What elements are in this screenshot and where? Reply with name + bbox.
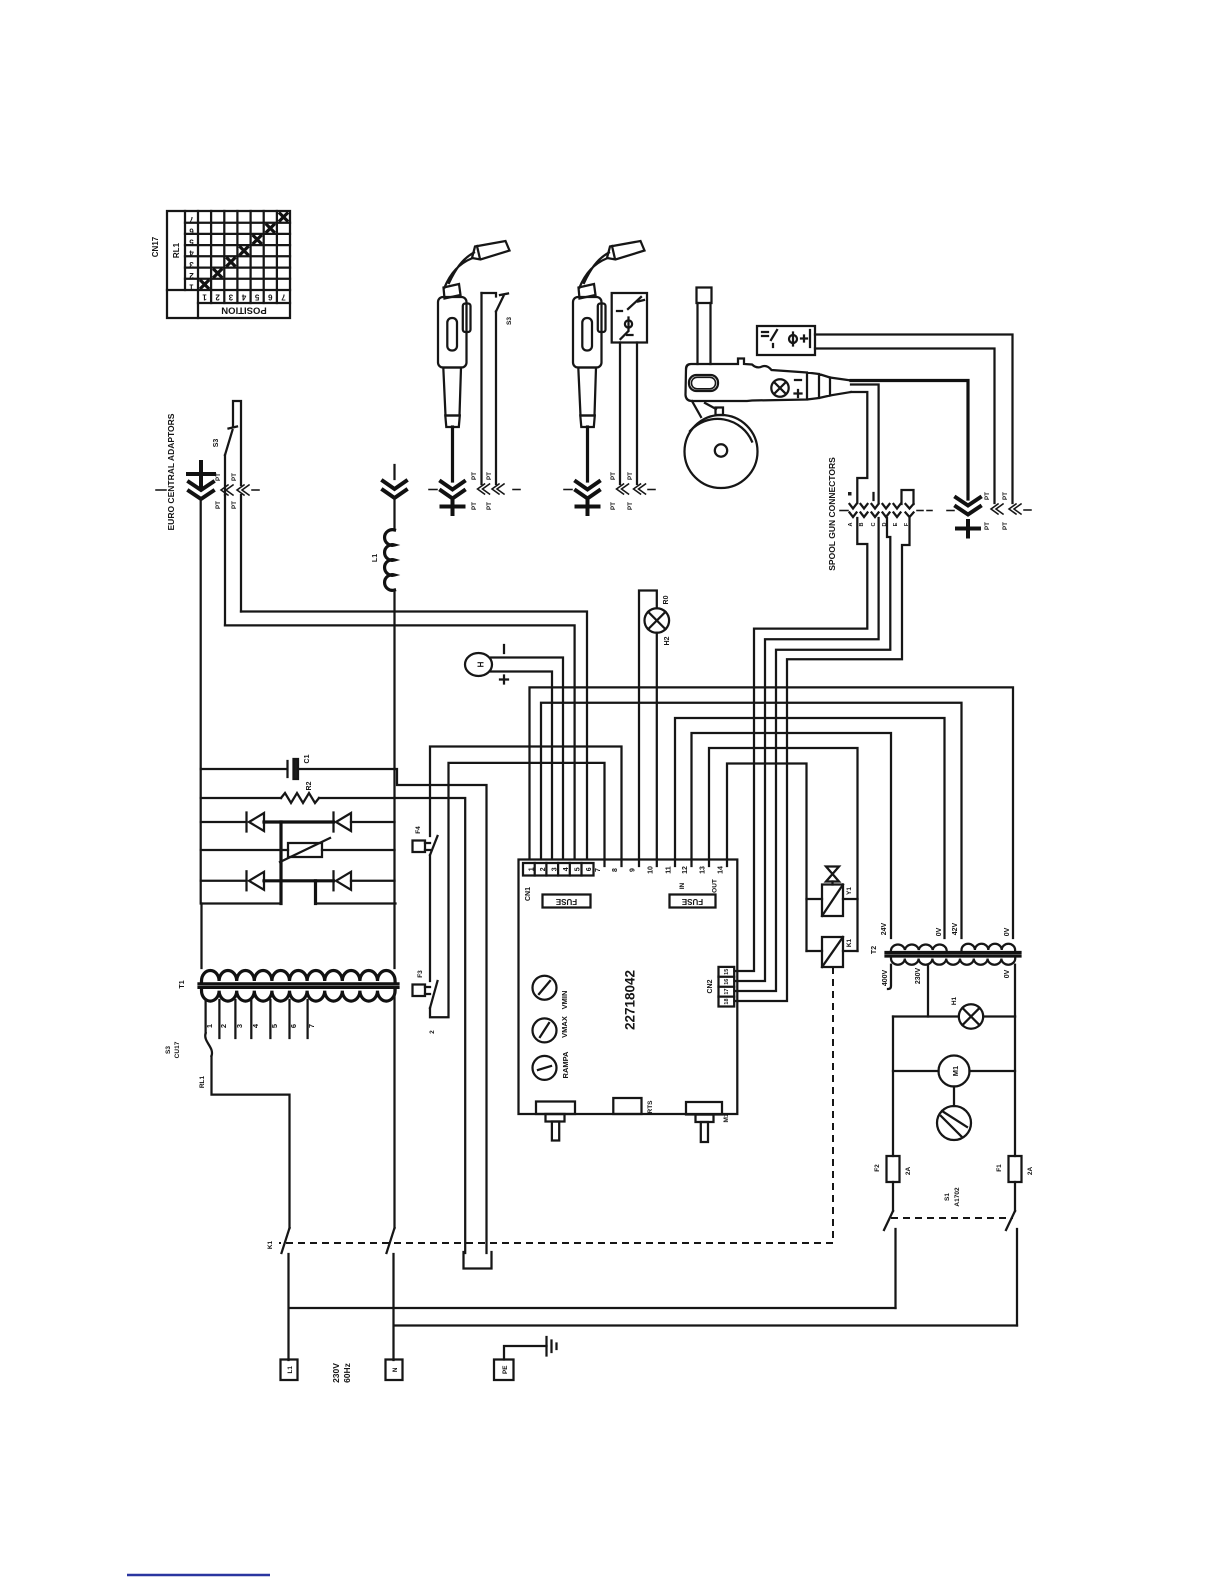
torch1 lower cone	[443, 368, 461, 416]
switch S3 on adaptor loop	[225, 427, 237, 496]
T1 primary winding	[202, 991, 396, 1002]
torch1 switch S3	[496, 296, 504, 312]
terminal N	[386, 1360, 403, 1381]
torch2 trigger window	[582, 318, 592, 351]
torch1 side latch	[463, 304, 471, 333]
T2 secondary 42V winding	[962, 944, 1016, 950]
torch1 neck collar	[444, 284, 461, 299]
svg-text:1: 1	[528, 867, 535, 871]
torch1 handle	[438, 297, 467, 368]
svg-text:0V: 0V	[1004, 927, 1011, 936]
wire spool box to PT b	[815, 349, 995, 504]
svg-text:18: 18	[724, 998, 730, 1004]
svg-text:10: 10	[647, 866, 654, 874]
spool gun slot	[689, 375, 718, 391]
euro adaptor gas cross	[188, 462, 214, 486]
wire T2 primary 0V to right rail	[1014, 965, 1016, 1017]
svg-text:8: 8	[612, 868, 619, 872]
wire bus2 to CN1 pin5	[225, 625, 575, 859]
svg-text:RAMPA: RAMPA	[561, 1051, 570, 1079]
torch2 gas cross	[577, 500, 599, 515]
earth ground symbol	[547, 1337, 557, 1356]
RTS component	[613, 1098, 641, 1114]
wire CN1 pin11 to T2 24V-winding 0V	[675, 718, 945, 938]
svg-text:PT: PT	[627, 472, 634, 480]
spool gun spindle	[697, 288, 712, 365]
spool gun wheel arm	[692, 401, 716, 417]
svg-text:230V: 230V	[331, 1363, 341, 1383]
svg-text:2: 2	[219, 1024, 228, 1028]
torch1 tip ferrule	[445, 416, 460, 428]
wire CN1 pin2 to T2 42V	[541, 703, 962, 938]
svg-text:R2: R2	[306, 781, 313, 790]
plus mark	[500, 676, 508, 684]
torch2 neck	[580, 253, 610, 288]
T1 core	[199, 982, 398, 985]
svg-text:7: 7	[307, 1024, 316, 1028]
wire spool gun trigger 1	[851, 385, 879, 504]
svg-text:400V: 400V	[882, 970, 889, 987]
spool connector pin letters	[848, 522, 910, 526]
svg-text:T1: T1	[179, 980, 186, 988]
svg-text:PT: PT	[215, 473, 222, 481]
wire T2 230V tap to H1 row	[927, 965, 929, 1017]
svg-text:S3: S3	[213, 439, 220, 448]
capacitor C1 row	[201, 759, 395, 779]
svg-text:2: 2	[540, 867, 547, 871]
svg-text:POSITION: POSITION	[221, 305, 267, 316]
svg-text:F2: F2	[874, 1164, 881, 1172]
svg-text:4: 4	[241, 293, 246, 302]
svg-text:PE: PE	[502, 1366, 509, 1374]
PCB board outline	[519, 860, 738, 1115]
wire PT2 down to bus1	[240, 495, 242, 612]
dashed mating line left of euro adaptor	[156, 489, 166, 491]
torch2 handle	[573, 297, 602, 368]
gas valve Y1	[807, 867, 858, 917]
svg-text:7: 7	[189, 215, 194, 224]
svg-text:L1: L1	[372, 554, 379, 562]
svg-text:1: 1	[202, 293, 207, 302]
svg-text:C: C	[871, 522, 877, 526]
svg-text:7: 7	[281, 293, 286, 302]
svg-text:4: 4	[189, 249, 194, 258]
torch1 neck	[445, 253, 475, 288]
T2 core	[886, 951, 1020, 954]
svg-text:2: 2	[215, 293, 220, 302]
torch1 nozzle	[472, 241, 510, 260]
switch S1 A1702 right pole	[1006, 1182, 1017, 1326]
svg-text:17: 17	[724, 989, 730, 995]
svg-text:2: 2	[189, 271, 194, 280]
lamp H2	[645, 608, 670, 633]
L1 top stub	[393, 465, 395, 479]
trimmer VMIN	[533, 976, 557, 1000]
svg-text:CU17: CU17	[174, 1041, 181, 1058]
L1 chevron connector	[383, 481, 406, 498]
svg-text:PT: PT	[231, 473, 238, 481]
svg-text:OUT: OUT	[712, 879, 719, 893]
svg-text:FUSE: FUSE	[555, 897, 577, 906]
svg-text:9: 9	[630, 868, 637, 872]
wire spool box to PT a	[815, 335, 1013, 504]
torch2 trigger box	[612, 293, 647, 343]
wire T1 primary 0V down to K1 contact	[393, 990, 395, 1228]
svg-text:PT: PT	[627, 502, 634, 510]
connector CN2 pins 15-18	[719, 967, 735, 1007]
svg-text:PT: PT	[1002, 492, 1009, 500]
svg-text:6: 6	[268, 293, 273, 302]
selector S3 CU17 wiper	[205, 1033, 212, 1056]
T1 primary taps 1-7	[206, 1000, 308, 1038]
svg-text:H2: H2	[664, 636, 671, 645]
PT connector pair on torch control loop	[221, 485, 249, 495]
wire spool gun motor feed (bold)	[851, 381, 968, 500]
wire rectifier bold bus row2	[264, 879, 334, 882]
wire H1 row	[893, 1015, 959, 1017]
wire CN1 pin9 up and over to H2	[639, 591, 657, 860]
svg-text:FUSE: FUSE	[681, 897, 703, 906]
svg-text:S3: S3	[165, 1046, 172, 1054]
torch2 PT connectors	[617, 484, 646, 494]
svg-text:EURO CENTRAL ADAPTORS: EURO CENTRAL ADAPTORS	[166, 413, 176, 530]
wire left box edge	[200, 769, 202, 904]
connection table CN17/RL1 POSITION	[167, 211, 290, 318]
svg-text:42V: 42V	[952, 922, 959, 935]
terminal PE	[494, 1360, 514, 1381]
svg-text:22718042: 22718042	[623, 970, 638, 1030]
svg-text:CN1: CN1	[525, 887, 532, 901]
svg-text:2: 2	[429, 1030, 436, 1034]
svg-text:0V: 0V	[1004, 969, 1011, 978]
spool gun body	[686, 359, 831, 402]
svg-text:16: 16	[724, 979, 730, 985]
varistor row	[201, 838, 395, 862]
contactor K1 pole 2	[387, 1228, 395, 1360]
svg-text:PT: PT	[471, 472, 478, 480]
wire bus1 to CN1 pin6	[241, 612, 587, 860]
svg-text:3: 3	[189, 260, 194, 269]
svg-text:VMIN: VMIN	[560, 991, 569, 1010]
svg-text:14: 14	[718, 866, 725, 874]
torch2 cable	[586, 427, 589, 481]
shunt H	[465, 653, 492, 676]
svg-text:1: 1	[205, 1024, 214, 1028]
spool gun nozzle taper lines	[830, 378, 851, 381]
inductor L1	[385, 530, 395, 591]
svg-text:PT: PT	[1002, 522, 1009, 530]
torch1 gas cross	[442, 500, 464, 515]
wire RL1 selector to K1 contact	[212, 1056, 290, 1228]
torch1 central adaptor chevron	[441, 482, 464, 499]
svg-text:Y1: Y1	[846, 887, 853, 895]
torch1 trigger window	[447, 318, 457, 351]
torch2 side latch	[598, 304, 606, 333]
svg-text:N: N	[392, 1367, 399, 1372]
svg-text:3: 3	[235, 1024, 244, 1028]
svg-text:4: 4	[563, 867, 570, 871]
svg-text:5: 5	[574, 867, 581, 871]
T1 secondary enclosure	[202, 904, 396, 969]
svg-text:SPOOL GUN CONNECTORS: SPOOL GUN CONNECTORS	[827, 457, 837, 571]
svg-text:6: 6	[586, 867, 593, 871]
spool gun wire wheel	[685, 415, 758, 488]
terminal L1	[281, 1360, 298, 1381]
wire spool conn A to CN2 pin15	[735, 518, 868, 971]
contactor K1 pole 1	[282, 1228, 290, 1360]
svg-text:H1: H1	[951, 996, 958, 1005]
wire R2 row to K1 output contact	[395, 798, 466, 1253]
wire PE to earth	[504, 1346, 547, 1360]
mains bus line 1	[290, 1307, 896, 1309]
svg-text:3: 3	[551, 867, 558, 871]
svg-text:6: 6	[289, 1024, 298, 1028]
wire F3 back up to CN1 pin7	[430, 763, 605, 1017]
svg-text:230V: 230V	[915, 968, 922, 985]
torch2 lower cone	[578, 368, 596, 416]
svg-text:T2: T2	[871, 946, 878, 954]
spool gun switch box	[757, 326, 815, 355]
svg-text:K1: K1	[846, 938, 853, 947]
spool gun motor circle	[771, 379, 788, 396]
T2 secondary 24V winding	[891, 945, 947, 950]
wire spool conn B to CN2 pin16	[735, 518, 879, 981]
wire M1 row	[893, 1070, 939, 1072]
minus mark	[503, 645, 505, 653]
right chevron connector (bold)	[956, 498, 980, 515]
fan	[953, 1087, 955, 1107]
torch1 PT connectors	[478, 484, 505, 494]
table column digits	[202, 293, 286, 302]
svg-text:PT: PT	[984, 492, 991, 500]
svg-text:PT: PT	[486, 502, 493, 510]
T1 secondary winding	[202, 971, 396, 982]
svg-text:PT: PT	[486, 472, 493, 480]
svg-text:L1: L1	[287, 1366, 294, 1374]
svg-text:7: 7	[595, 868, 602, 872]
motor M1	[939, 1056, 970, 1087]
trimmer RAMPA	[533, 1056, 557, 1080]
wire H plus to CN1 pin3	[490, 672, 552, 860]
wire CN1 pin14 to Y1/K1 left side	[727, 764, 807, 952]
wire C1 row jog to K1 output contact	[395, 769, 487, 1253]
svg-text:24V: 24V	[881, 922, 888, 935]
svg-text:IN: IN	[679, 882, 686, 889]
svg-text:E: E	[893, 522, 899, 526]
contactor K1 output pole bracket	[464, 1252, 492, 1269]
svg-text:5: 5	[254, 293, 259, 302]
svg-text:2A: 2A	[905, 1167, 912, 1176]
lamp H1	[959, 1004, 983, 1028]
svg-text:H: H	[477, 661, 486, 667]
wire spool conn F to CN2 pin18	[735, 518, 910, 1001]
svg-text:PT: PT	[984, 522, 991, 530]
svg-text:5: 5	[189, 238, 194, 247]
svg-text:PT: PT	[471, 502, 478, 510]
svg-text:F4: F4	[415, 826, 422, 834]
fuse F1 2A	[1014, 1017, 1016, 1157]
wire CN1 pin12 to T2 24V	[692, 733, 892, 938]
svg-text:F1: F1	[996, 1164, 1003, 1172]
torch1 switch wires	[482, 293, 497, 297]
thermostat F4	[413, 836, 438, 855]
switch S1 A1702 left pole	[884, 1182, 896, 1308]
svg-text:F3: F3	[417, 970, 424, 978]
wire CN1 pin8 to F4	[430, 747, 622, 860]
torch2 tip ferrule	[580, 416, 595, 428]
wire rectifier bold bus row1	[264, 820, 334, 823]
svg-text:0V: 0V	[936, 927, 943, 936]
relay coil K1	[807, 937, 858, 967]
torch2 wires from box to PT	[619, 343, 621, 485]
svg-text:1: 1	[189, 282, 194, 291]
wire F4 to F3	[429, 855, 431, 981]
torch2 nozzle	[607, 241, 645, 260]
svg-text:M1: M1	[723, 1113, 730, 1122]
svg-text:RL1: RL1	[172, 242, 181, 258]
PCB stub connector left	[536, 1102, 575, 1141]
svg-text:CN2: CN2	[707, 979, 714, 993]
blue pen mark	[127, 1574, 270, 1577]
trimmer VMAX	[533, 1018, 557, 1042]
wire PT1 down to bus2	[224, 495, 226, 625]
spool connector chevrons A-F	[850, 504, 914, 517]
svg-text:S1: S1	[944, 1193, 951, 1201]
spool connector line	[840, 510, 932, 512]
svg-text:R0: R0	[663, 595, 670, 604]
PCB stub connector M1	[686, 1102, 722, 1142]
svg-text:PT: PT	[215, 501, 222, 509]
T2 400V stub	[888, 965, 891, 989]
svg-text:12: 12	[682, 866, 689, 874]
CN1 connector strip pins 1-6	[523, 863, 594, 876]
svg-text:PT: PT	[610, 472, 617, 480]
svg-text:C1: C1	[304, 754, 311, 763]
wire CN1 pin1 to T2 42V-winding 0V	[530, 687, 1014, 938]
fuse F2 2A	[892, 1017, 894, 1157]
jumper loop over E-F	[902, 490, 914, 504]
right PT connectors	[991, 504, 1021, 514]
wire adaptor loop top bracket	[233, 401, 241, 485]
svg-text:K1: K1	[267, 1240, 274, 1249]
dashed link S1 poles	[891, 1217, 1013, 1219]
dashed link K1 coil to contacts	[279, 967, 833, 1243]
wire spool conn D to CN2 pin17	[735, 518, 891, 991]
svg-text:6: 6	[189, 226, 194, 235]
svg-text:13: 13	[700, 866, 707, 874]
svg-text:60Hz: 60Hz	[342, 1363, 352, 1383]
diode row 1	[201, 813, 395, 832]
svg-text:11: 11	[666, 866, 673, 874]
torch2 neck collar	[579, 284, 596, 299]
diode row 2	[201, 871, 395, 890]
svg-text:A1702: A1702	[954, 1187, 961, 1207]
wire H2 down to CN1 pin10	[656, 633, 658, 859]
svg-text:2A: 2A	[1027, 1167, 1034, 1176]
wire CN1 pin13 to Y1/K1 right side	[709, 748, 858, 951]
svg-text:VMAX: VMAX	[560, 1016, 569, 1038]
fuse box left	[543, 895, 591, 908]
thermostat F3	[413, 981, 438, 1008]
table X marks diagonal	[201, 214, 287, 288]
CN1 pins 7-14 ticks and labels	[605, 860, 728, 867]
torch1 cable	[451, 427, 454, 481]
wire spool gun trigger 2	[851, 392, 867, 503]
fuse box right	[670, 895, 716, 908]
svg-text:PT: PT	[231, 501, 238, 509]
svg-text:PT: PT	[610, 502, 617, 510]
wire H minus to CN1 pin4	[491, 658, 563, 860]
torch2 central adaptor chevron	[576, 482, 599, 499]
svg-text:5: 5	[270, 1024, 279, 1028]
svg-text:B: B	[859, 522, 865, 526]
svg-text:3: 3	[228, 293, 233, 302]
T2 winding labels	[881, 922, 1011, 986]
wire euro adaptor down to rectifier box	[200, 499, 202, 769]
svg-text:RTS: RTS	[647, 1100, 654, 1114]
table row digits	[189, 215, 194, 291]
svg-text:M1: M1	[951, 1066, 960, 1076]
euro adaptor chevron connector	[189, 482, 213, 499]
right gas cross	[957, 521, 979, 537]
svg-text:CN17: CN17	[151, 236, 160, 257]
svg-text:RL1: RL1	[199, 1075, 206, 1088]
resistor R2	[201, 793, 395, 803]
wire L1 down right edge of rectifier box to transformer	[393, 590, 395, 968]
svg-text:A: A	[848, 522, 854, 526]
T2 primary winding	[891, 959, 1015, 965]
wire chevron to L1 coil	[393, 498, 395, 530]
svg-text:15: 15	[724, 969, 730, 975]
mains bus line 2	[395, 1324, 1018, 1326]
svg-text:S3: S3	[506, 317, 513, 325]
